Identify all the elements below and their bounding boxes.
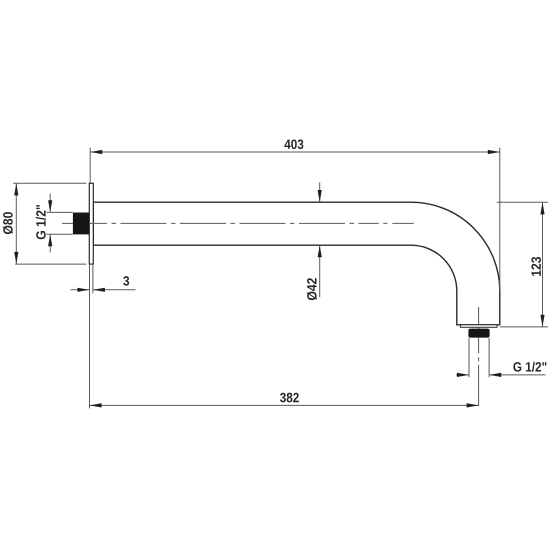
arrow G12R right bbox=[489, 373, 501, 377]
dim text 403 bbox=[284, 139, 303, 149]
arrow O80 bottom bbox=[14, 252, 18, 264]
G1/2 left ext lines bbox=[46, 211, 72, 213]
arrow 382 left bbox=[90, 403, 102, 407]
arrow 382 right bbox=[467, 403, 479, 407]
123 dim line bbox=[542, 202, 544, 326]
vertical centerline of outlet bbox=[478, 307, 480, 406]
arrow 403 right bbox=[488, 150, 500, 154]
arrow G12L bottom bbox=[48, 234, 52, 246]
wall flange bbox=[89, 183, 93, 264]
3 dim line bbox=[71, 289, 90, 291]
123 ext lines bbox=[497, 201, 548, 203]
403 dim line bbox=[90, 151, 500, 153]
arrow 3 left bbox=[77, 288, 89, 292]
arrow 3 right bbox=[93, 288, 105, 292]
403 ext lines bbox=[89, 148, 91, 183]
G1/2 right dim line bbox=[456, 374, 469, 376]
dim text G12 left bbox=[36, 205, 46, 239]
arrow G12L top bbox=[48, 200, 52, 212]
dim text O80 bbox=[3, 212, 13, 234]
G1/2 right ext lines bbox=[468, 338, 470, 377]
arrow 123 bottom bbox=[540, 315, 544, 327]
G1/2 left dim lines bbox=[49, 194, 51, 213]
arrow 403 left bbox=[90, 150, 102, 154]
O80 ext lines bbox=[13, 182, 86, 184]
outlet step bbox=[461, 325, 498, 328]
O80 dim line bbox=[15, 183, 17, 264]
pipe body outline bbox=[93, 202, 500, 325]
arrow O42 top bbox=[318, 190, 322, 202]
horizontal centerline bbox=[62, 222, 414, 224]
left thread block G 1/2 bbox=[73, 213, 89, 235]
outlet thread block bbox=[468, 329, 489, 338]
dim text G12 right bbox=[513, 362, 546, 372]
dim text 123 bbox=[531, 257, 541, 276]
O42 dim lines bbox=[319, 182, 321, 202]
382 dim line bbox=[90, 404, 479, 406]
arrowheads bbox=[14, 150, 544, 408]
dim text O42 bbox=[307, 278, 317, 300]
arrow O80 top bbox=[14, 183, 18, 195]
dim text 382 bbox=[280, 393, 299, 403]
3 / 382 ext lines below flange bbox=[89, 265, 91, 408]
arrow 123 top bbox=[540, 202, 544, 214]
arrow G12R left bbox=[457, 373, 469, 377]
arrow O42 bottom bbox=[318, 245, 322, 257]
dim text 3 bbox=[123, 276, 129, 286]
